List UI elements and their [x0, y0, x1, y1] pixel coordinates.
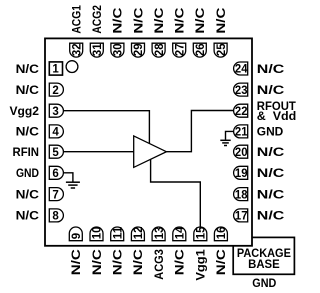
- pin 26 label N/C: [193, 7, 207, 33]
- pin 22 label RFOUT & Vdd: [257, 99, 297, 123]
- ground symbol at pin21: [220, 140, 230, 145]
- svg-text:N/C: N/C: [214, 249, 228, 275]
- pin 23: [234, 83, 248, 97]
- svg-text:28: 28: [154, 43, 166, 56]
- svg-text:ACG1: ACG1: [70, 5, 84, 34]
- pin 5: [49, 145, 63, 159]
- pin 27: [173, 43, 187, 57]
- svg-text:10: 10: [92, 227, 104, 240]
- svg-text:19: 19: [235, 168, 248, 180]
- pin 29 label N/C: [131, 7, 145, 33]
- pin 11 label N/C: [111, 249, 125, 275]
- svg-text:GND: GND: [257, 125, 284, 139]
- svg-text:N/C: N/C: [16, 62, 40, 76]
- svg-text:GND: GND: [252, 276, 276, 290]
- pin 30: [111, 43, 125, 57]
- pin 13: [152, 227, 166, 241]
- svg-text:23: 23: [235, 85, 248, 97]
- pin 8: [49, 209, 63, 223]
- svg-text:N/C: N/C: [257, 145, 285, 159]
- pin 1: [49, 62, 62, 76]
- pin 9 label N/C: [69, 249, 83, 275]
- svg-text:Vgg2: Vgg2: [10, 104, 40, 118]
- svg-text:30: 30: [113, 44, 125, 57]
- ground symbol at pin6: [66, 182, 80, 188]
- pin 3: [49, 104, 63, 118]
- pin 6 label GND: [16, 166, 39, 180]
- chip package outline: [45, 38, 252, 245]
- svg-text:RFIN: RFIN: [13, 145, 40, 159]
- pin 20 label N/C: [257, 145, 285, 159]
- wire pin5 RFIN to amplifier input: [64, 151, 134, 153]
- pin 18 label N/C: [257, 187, 285, 201]
- pin 5 label RFIN: [13, 145, 40, 159]
- svg-text:27: 27: [174, 44, 186, 57]
- svg-text:N/C: N/C: [16, 187, 40, 201]
- pin 8 label N/C: [16, 209, 40, 223]
- pin 21 label GND: [257, 125, 284, 139]
- pin 6: [49, 166, 63, 180]
- package base box: [233, 237, 294, 274]
- svg-text:ACG2: ACG2: [90, 5, 104, 34]
- svg-text:25: 25: [216, 43, 228, 56]
- pin 20: [234, 145, 248, 159]
- pin 31: [90, 43, 104, 57]
- svg-text:9: 9: [71, 233, 83, 239]
- svg-text:31: 31: [92, 43, 104, 56]
- svg-text:N/C: N/C: [193, 7, 207, 33]
- svg-text:N/C: N/C: [16, 125, 40, 139]
- pin 17 label N/C: [257, 209, 285, 223]
- pin 23 label N/C: [257, 83, 285, 97]
- svg-text:N/C: N/C: [173, 249, 187, 275]
- pin 32: [70, 43, 84, 57]
- pin 2: [49, 83, 63, 97]
- pin 7: [49, 188, 63, 202]
- pin 4 label N/C: [16, 125, 40, 139]
- svg-text:6: 6: [52, 168, 58, 180]
- pin 14: [173, 226, 187, 241]
- pin 14 label N/C: [173, 249, 187, 275]
- svg-text:20: 20: [235, 147, 248, 159]
- pin 10 label N/C: [90, 249, 104, 275]
- svg-text:N/C: N/C: [131, 7, 145, 33]
- pin 27 label N/C: [173, 7, 187, 33]
- svg-text:26: 26: [195, 44, 207, 57]
- svg-text:N/C: N/C: [257, 209, 285, 223]
- svg-text:16: 16: [216, 227, 228, 240]
- pin 28: [152, 43, 166, 57]
- wire pin6 to ground: [64, 173, 73, 182]
- svg-text:18: 18: [235, 189, 248, 201]
- pin 11: [111, 226, 125, 241]
- pin 32 label ACG1: [70, 5, 84, 34]
- pin 10: [90, 227, 104, 241]
- pin 2 label N/C: [16, 83, 40, 97]
- pin 24: [234, 62, 248, 76]
- svg-text:N/C: N/C: [257, 187, 285, 201]
- wire pin21 to ground: [226, 131, 234, 139]
- svg-text:& Vdd: & Vdd: [257, 109, 297, 123]
- pin 4: [49, 125, 63, 139]
- svg-text:BASE: BASE: [248, 257, 280, 271]
- pin 30 label N/C: [111, 7, 125, 33]
- svg-text:N/C: N/C: [152, 7, 166, 33]
- svg-text:8: 8: [52, 211, 59, 223]
- svg-text:N/C: N/C: [257, 166, 285, 180]
- svg-text:21: 21: [235, 127, 248, 139]
- svg-text:1: 1: [52, 64, 59, 76]
- svg-text:N/C: N/C: [214, 7, 228, 33]
- pin 1 indicator circle: [66, 61, 78, 73]
- pin 17: [234, 209, 248, 223]
- pin 25: [214, 43, 228, 57]
- svg-text:7: 7: [52, 189, 58, 201]
- svg-text:15: 15: [196, 226, 208, 239]
- svg-text:11: 11: [112, 226, 124, 239]
- svg-text:ACG3: ACG3: [152, 249, 166, 280]
- svg-text:12: 12: [133, 227, 145, 240]
- svg-text:24: 24: [235, 64, 248, 76]
- pin 12: [131, 227, 145, 241]
- svg-text:N/C: N/C: [257, 83, 285, 97]
- wire amplifier bottom to pin15 Vgg1: [151, 159, 201, 227]
- svg-text:N/C: N/C: [257, 62, 285, 76]
- svg-text:14: 14: [175, 226, 187, 239]
- svg-text:2: 2: [52, 85, 58, 97]
- pin 29: [132, 43, 146, 57]
- svg-text:22: 22: [235, 106, 248, 118]
- pin 15 label Vgg1: [194, 249, 208, 281]
- pin 24 label N/C: [257, 62, 285, 76]
- svg-text:N/C: N/C: [90, 249, 104, 275]
- svg-text:GND: GND: [16, 166, 39, 180]
- pin 1 label N/C: [16, 62, 40, 76]
- pin 26: [193, 43, 207, 57]
- pin 19 label N/C: [257, 166, 285, 180]
- pin 18: [234, 188, 248, 202]
- pin 9: [69, 227, 83, 241]
- pin 15: [194, 226, 208, 241]
- pin 12 label N/C: [131, 249, 145, 275]
- svg-text:N/C: N/C: [111, 249, 125, 275]
- svg-text:N/C: N/C: [173, 7, 187, 33]
- svg-text:N/C: N/C: [69, 249, 83, 275]
- svg-text:17: 17: [235, 211, 248, 223]
- svg-text:Vgg1: Vgg1: [194, 249, 208, 281]
- wire amplifier output to pin22 RFOUT: [166, 111, 233, 152]
- svg-text:13: 13: [154, 227, 166, 240]
- pin 31 label ACG2: [90, 5, 104, 34]
- svg-text:3: 3: [52, 106, 58, 118]
- pin 13 label ACG3: [152, 249, 166, 280]
- pin 16 label N/C: [214, 249, 228, 275]
- svg-text:N/C: N/C: [111, 7, 125, 33]
- pin 21: [234, 125, 248, 139]
- pin 3 label Vgg2: [10, 104, 40, 118]
- svg-text:4: 4: [52, 127, 59, 139]
- svg-text:32: 32: [71, 44, 83, 57]
- svg-text:N/C: N/C: [16, 209, 40, 223]
- svg-text:N/C: N/C: [16, 83, 40, 97]
- op-amp amplifier triangle: [134, 136, 167, 168]
- svg-text:N/C: N/C: [131, 249, 145, 275]
- wire pin3 Vgg2 to amplifier top: [64, 111, 150, 144]
- pin 22: [234, 104, 248, 118]
- package base GND label: [252, 276, 276, 290]
- svg-text:29: 29: [133, 44, 145, 57]
- svg-text:5: 5: [52, 147, 59, 159]
- pin 7 label N/C: [16, 187, 40, 201]
- pin 28 label N/C: [152, 7, 166, 33]
- pin 19: [234, 166, 248, 180]
- pin 16: [214, 227, 228, 241]
- pin 25 label N/C: [214, 7, 228, 33]
